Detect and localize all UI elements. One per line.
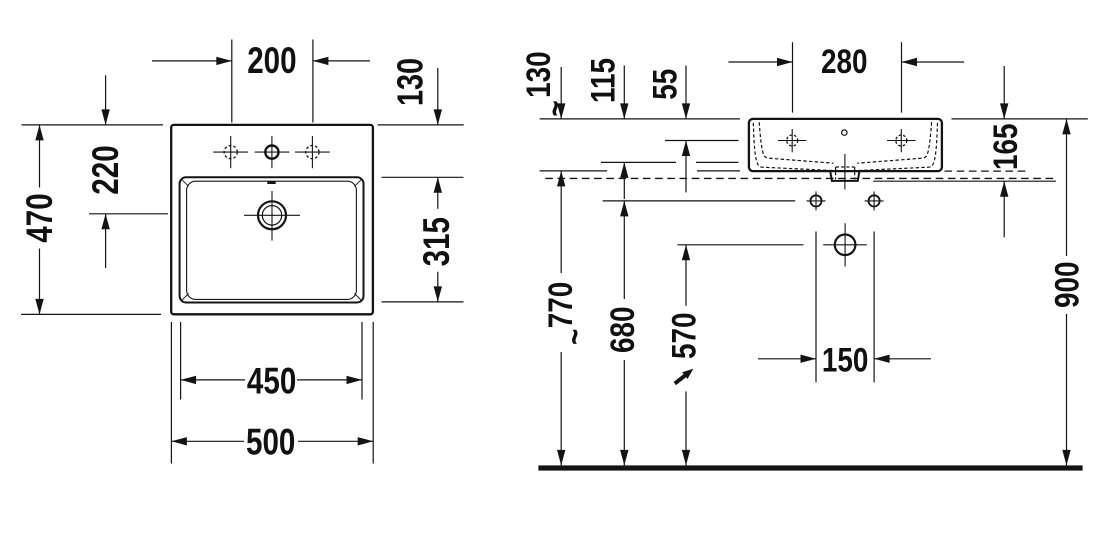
- rim corner tick bottom-left: [182, 294, 189, 301]
- right extension line at inner rim top: [382, 176, 464, 178]
- svg-text:130: 130: [519, 51, 557, 98]
- dim 220 lower arrow: [105, 214, 107, 268]
- faucet hole right (dashed): [306, 146, 319, 159]
- svg-text:450: 450: [247, 361, 296, 402]
- dim 280 arrows: [728, 61, 792, 63]
- bottom edge extension line (left): [21, 313, 161, 315]
- svg-text:115: 115: [584, 58, 622, 103]
- lower solid line right (165 base): [873, 180, 1056, 182]
- right extension line at basin top edge: [378, 124, 464, 126]
- faucet hole left (dashed): [224, 146, 237, 159]
- dim 470 line + arrows: [39, 125, 41, 188]
- drain crosshair: [244, 214, 300, 216]
- dim 220 upper arrow: [105, 75, 107, 125]
- svg-text:55: 55: [646, 69, 684, 100]
- extension line basin top left: [540, 118, 740, 120]
- dim 450 line + arrows: [181, 379, 245, 381]
- basin bottom level dashed (right side): [945, 170, 1030, 172]
- rim corner tick top-left: [182, 179, 189, 186]
- bowl hidden contour right inner: [857, 122, 931, 163]
- dim 55 arrow (top): [685, 66, 687, 119]
- console plane dashed line: [545, 177, 1056, 179]
- washbasin outer body (plan view): [171, 125, 373, 314]
- bowl hidden contour left inner: [759, 122, 833, 163]
- bowl hidden contour left outer: [753, 123, 833, 171]
- dim 115 arrow (top): [623, 66, 625, 119]
- svg-text:500: 500: [246, 422, 295, 463]
- dim 150 arrows: [758, 358, 816, 360]
- dim 165 bottom arrow: [1003, 181, 1005, 237]
- dim 680 line + arrows: [623, 201, 625, 299]
- extension line 115 level: [601, 161, 676, 163]
- faucet hole front left (dashed): [787, 135, 798, 146]
- dim 900 line + arrows: [1066, 119, 1068, 256]
- faucet hole middle (solid): [265, 146, 278, 159]
- extension line basin top right: [952, 118, 1088, 120]
- svg-text:680: 680: [604, 306, 642, 353]
- svg-text:280: 280: [821, 43, 868, 81]
- top edge extension line (left): [22, 124, 164, 126]
- floor line: [538, 465, 1082, 470]
- fixing hole left: [810, 195, 821, 206]
- right extension line at inner rim bottom: [382, 301, 464, 303]
- svg-text:315: 315: [417, 217, 458, 266]
- extension line fixing holes: [603, 200, 796, 202]
- svg-text:~: ~: [536, 100, 574, 116]
- rim corner tick top-right: [355, 179, 362, 186]
- dim 570 line + arrows: [685, 245, 687, 306]
- dim 500 line + arrows: [171, 440, 244, 442]
- water supply circle: [835, 235, 856, 256]
- extension line basin bottom: [540, 170, 608, 172]
- dim ~770 line + arrows: [560, 171, 562, 273]
- inner basin rim: [180, 177, 364, 302]
- dim 55 lower arrow: [685, 141, 687, 193]
- faucet hole front right (dashed): [896, 135, 907, 146]
- overflow slot tick: [267, 181, 275, 184]
- extension line faucet centre (55): [665, 140, 739, 142]
- svg-text:900: 900: [1048, 261, 1086, 308]
- drain pipe hidden lines: [835, 167, 837, 179]
- svg-text:470: 470: [20, 193, 61, 242]
- dim 450 extension lines: [180, 322, 182, 400]
- dim 200 arrow left: [152, 60, 232, 62]
- svg-text:130: 130: [389, 58, 430, 106]
- dim 500 extension lines: [170, 322, 172, 464]
- dim 200 extension lines: [231, 40, 233, 123]
- svg-text:150: 150: [822, 341, 869, 379]
- washbasin body (front view): [749, 119, 942, 171]
- dim 315 lower arrow: [437, 272, 439, 302]
- drain inner circle: [262, 206, 281, 225]
- dim 200 arrow right: [313, 60, 370, 62]
- svg-text:200: 200: [247, 41, 296, 82]
- faucet hole left crosshair: [213, 151, 248, 153]
- dim 280 extension lines: [792, 42, 794, 112]
- dim 150 extension lines: [815, 232, 817, 383]
- drain outer circle: [258, 201, 286, 229]
- extension line supply centre: [677, 244, 803, 246]
- fixing hole right: [869, 195, 880, 206]
- faucet hole middle crosshair: [255, 151, 290, 153]
- dim 220 extension line: [89, 213, 168, 215]
- vertical centerline upper: [844, 154, 846, 189]
- dim ~130 arrow (top): [560, 67, 562, 119]
- svg-text:570: 570: [665, 313, 703, 360]
- overflow hole (front): [842, 130, 847, 135]
- dim 130 arrow (left view): [437, 68, 439, 125]
- svg-text:~: ~: [555, 329, 593, 345]
- svg-text:770: 770: [541, 282, 579, 329]
- siphon cover (trap): [830, 171, 859, 181]
- adjustable height arrow symbol: [675, 375, 686, 383]
- svg-text:165: 165: [986, 124, 1024, 171]
- dim 315 upper arrow: [437, 177, 439, 209]
- inner basin floor line: [187, 181, 357, 299]
- dim 165 top arrow: [1003, 66, 1005, 119]
- faucet hole right crosshair: [295, 151, 330, 153]
- rim corner tick bottom-right: [355, 294, 362, 301]
- bowl hidden contour right outer: [858, 123, 938, 171]
- svg-text:220: 220: [86, 145, 127, 194]
- dim 115 lower arrow: [623, 162, 625, 199]
